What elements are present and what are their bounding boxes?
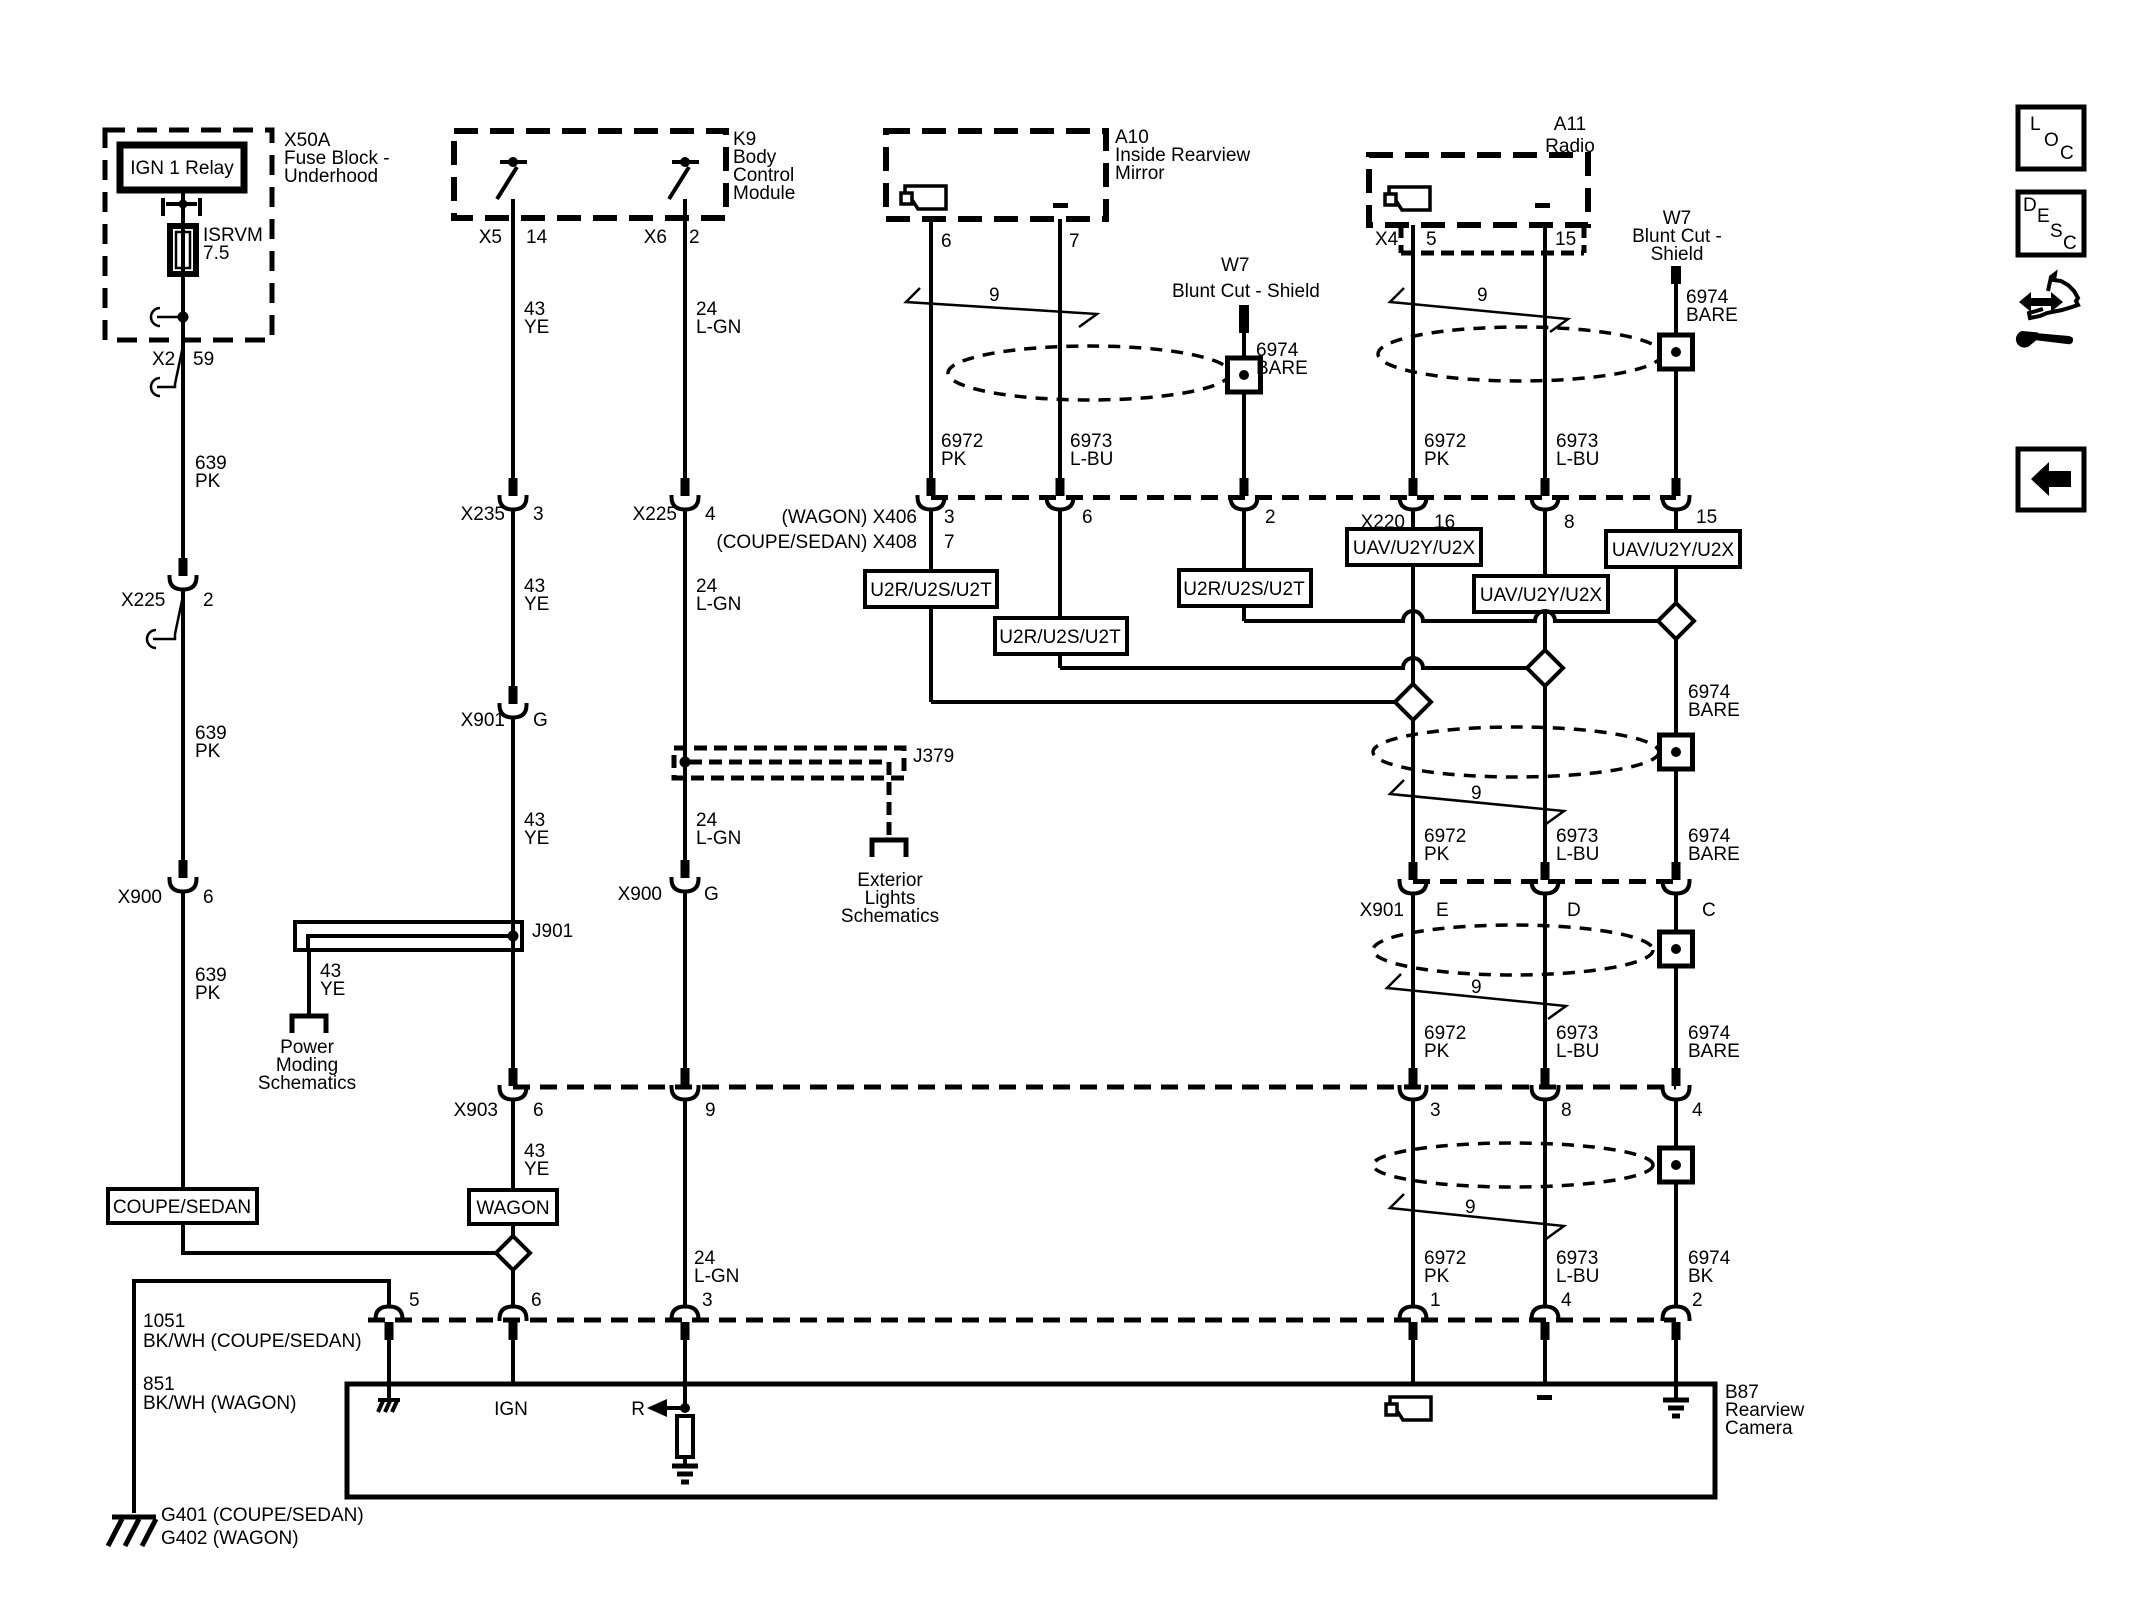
splice pack J901 — [295, 922, 522, 950]
wire label 6974 BARE (W7 right) — [1686, 287, 1738, 326]
svg-text:8: 8 — [1564, 512, 1575, 533]
wire label 43 YE (segment 2) — [524, 576, 549, 615]
svg-text:WAGON: WAGON — [476, 1198, 549, 1219]
wire label 43 YE (segment 1) — [524, 299, 549, 338]
svg-text:A11: A11 — [1554, 114, 1586, 135]
camera icon inside A11 — [1385, 187, 1430, 210]
wire: x=513 to splice J901 — [511, 716, 515, 1068]
svg-text:BARE: BARE — [1688, 1041, 1740, 1062]
WAGON option box — [469, 1190, 557, 1224]
svg-text:L: L — [2030, 114, 2041, 135]
wire label 6974 BARE (below diamond) — [1688, 682, 1740, 721]
chassis ground inside camera box (pin 5) — [378, 1400, 400, 1412]
svg-text:Module: Module — [733, 183, 795, 204]
svg-text:L-BU: L-BU — [1070, 449, 1113, 470]
svg-text:C: C — [2063, 233, 2077, 254]
wire: x=1060 to U2R box lower — [1058, 508, 1062, 618]
svg-text:YE: YE — [524, 594, 549, 615]
splice J379 dashed box — [674, 748, 904, 838]
svg-text:4: 4 — [705, 504, 716, 525]
svg-text:U2R/U2S/U2T: U2R/U2S/U2T — [1183, 579, 1305, 600]
svg-text:Mirror: Mirror — [1115, 163, 1165, 184]
svg-text:D: D — [2023, 195, 2037, 216]
wire label 43 YE (segment 3) — [524, 810, 549, 849]
svg-text:2: 2 — [203, 590, 214, 611]
wire label 24 L-GN (segment 2) — [696, 576, 741, 615]
wire: UAV right box down to diamond — [1674, 567, 1678, 603]
label X4 5 (radio) — [1375, 229, 1437, 250]
label 851 BK/WH (WAGON) — [143, 1374, 296, 1414]
svg-text:14: 14 — [526, 227, 548, 248]
junction diamond (x=1676 bus1) — [1658, 603, 1694, 639]
connector X901 pin G — [500, 686, 527, 718]
wire: mirror pin 7 down (6973 L-BU), x=1060 — [1058, 219, 1062, 478]
minus terminal inside B87 — [1537, 1395, 1552, 1400]
svg-text:YE: YE — [524, 317, 549, 338]
svg-text:X903: X903 — [454, 1100, 498, 1121]
option box UAV/U2Y/U2X (top) — [1347, 529, 1481, 565]
svg-text:X6: X6 — [644, 227, 667, 248]
svg-text:PK: PK — [195, 471, 221, 492]
label K9 Body Control Module — [733, 129, 795, 204]
svg-text:X235: X235 — [461, 504, 505, 525]
bus wire 1 with hops to diamond on x=1676 — [1244, 611, 1659, 621]
svg-text:G401 (COUPE/SEDAN): G401 (COUPE/SEDAN) — [161, 1505, 364, 1526]
wire: BCM X6-2 down (24 L-GN), x=685 — [683, 199, 687, 478]
svg-text:4: 4 — [1561, 1290, 1572, 1311]
svg-text:UAV/U2Y/U2X: UAV/U2Y/U2X — [1353, 538, 1475, 559]
wire: W7 shield drain (6974 BARE), x=1244 — [1242, 333, 1246, 478]
wire: x=1413 X901 to X903 — [1411, 892, 1415, 1068]
wire: x=1545 X901 to X903 — [1543, 892, 1547, 1068]
wire: radio X4-5 down (6972 PK), x=1413 — [1411, 225, 1415, 478]
svg-text:PK: PK — [941, 449, 967, 470]
svg-text:6: 6 — [203, 887, 214, 908]
junction diamond (x=1413 bus3) — [1395, 684, 1431, 720]
wire label 6972 PK (radio) — [1424, 431, 1466, 470]
connector X220 pin 16 — [1400, 478, 1427, 510]
connector pin 15 (wire 6974 right) — [1663, 478, 1690, 510]
wire: COUPE/SEDAN box to merge diamond — [183, 1223, 495, 1253]
svg-text:5: 5 — [1426, 229, 1437, 250]
off-page pointer to Exterior Lights Schematics — [872, 840, 906, 857]
label X901 E — [1360, 900, 1449, 921]
svg-text:W7: W7 — [1221, 255, 1250, 276]
wire: J901 branch down to off-page — [307, 950, 311, 1016]
shield ellipse (row 4) — [1373, 1143, 1653, 1187]
twisted pair marker 9 (row 3) — [1387, 974, 1566, 1019]
svg-text:U2R/U2S/U2T: U2R/U2S/U2T — [999, 627, 1121, 648]
wire: x=513 to WAGON box — [511, 1098, 515, 1190]
wire: relay output to fuse, left column x=183 — [181, 190, 185, 560]
merge diamond at x=513 — [496, 1236, 530, 1270]
svg-text:Shield: Shield — [1651, 244, 1704, 265]
label X235 3 — [461, 504, 544, 525]
wire: W7 right shield drain (6974 BARE), x=1676 — [1674, 284, 1678, 478]
svg-text:851: 851 — [143, 1374, 175, 1395]
connector X903 pin 6 — [500, 1068, 527, 1100]
wire label 6973 L-BU (mirror) — [1070, 431, 1113, 470]
label X225 2 — [121, 590, 214, 611]
svg-text:6: 6 — [1082, 507, 1093, 528]
svg-text:3: 3 — [702, 1290, 713, 1311]
body control module K9 dashed box — [454, 131, 726, 218]
label G401 (COUPE/SEDAN) G402 (WAGON) — [161, 1505, 364, 1549]
bottom connector pin 6 — [500, 1307, 527, 1341]
camera icon inside B87 — [1386, 1397, 1431, 1420]
svg-text:9: 9 — [1477, 285, 1488, 306]
radio A11 connector notch dashed — [1401, 225, 1584, 253]
wire: x=513 continues — [511, 508, 515, 687]
wire: pin 2 into camera box — [1674, 1340, 1678, 1400]
svg-text:3: 3 — [533, 504, 544, 525]
svg-text:8: 8 — [1561, 1100, 1572, 1121]
svg-text:G402 (WAGON): G402 (WAGON) — [161, 1528, 299, 1549]
connector X225-2 clip (diagonal with hook) — [147, 591, 184, 648]
connector X901 pin E — [1400, 862, 1427, 894]
wire: x=1413 X903 to bottom row — [1411, 1098, 1415, 1308]
svg-text:9: 9 — [989, 285, 1000, 306]
wire: x=1676 X903 to bottom row through shield — [1674, 1098, 1678, 1308]
connector X2 pin 59 (diagonal with hook) — [151, 341, 184, 396]
blunt cut stub W7 right — [1671, 266, 1681, 284]
svg-text:J379: J379 — [913, 746, 954, 767]
junction dot with clip hook inside fuse block — [151, 308, 189, 326]
wire label 6972 PK (bottom) — [1424, 1248, 1466, 1287]
shield connector box (row 3) — [1660, 932, 1693, 966]
label A11 Radio — [1545, 114, 1595, 157]
wire: x=1676 diamond through shield box to X901 row — [1674, 639, 1678, 863]
svg-text:9: 9 — [1471, 783, 1482, 804]
wire: x=1545 diamond to X901 row — [1543, 686, 1547, 863]
label X903 6 — [454, 1100, 544, 1121]
connector X903 pin 3 — [1400, 1068, 1427, 1100]
svg-text:2: 2 — [689, 227, 700, 248]
dashed bottom connector bus row — [368, 1318, 1676, 1323]
svg-text:1: 1 — [1430, 1290, 1441, 1311]
wire label 6974 BARE (above X901) — [1688, 826, 1740, 865]
svg-text:IGN 1 Relay: IGN 1 Relay — [130, 158, 234, 179]
svg-text:9: 9 — [705, 1100, 716, 1121]
svg-text:6: 6 — [533, 1100, 544, 1121]
svg-text:YE: YE — [524, 828, 549, 849]
wire label 6972 PK (mirror) — [941, 431, 983, 470]
wire label 6973 L-BU (above X903) — [1556, 1023, 1599, 1062]
svg-text:15: 15 — [1696, 507, 1717, 528]
wire: x=685 to bottom connector — [683, 1098, 687, 1308]
svg-text:2: 2 — [1265, 507, 1276, 528]
chassis ground G401/G402 — [108, 1517, 156, 1546]
connector X225 pin 2 on left wire — [170, 558, 197, 590]
label X900 6 — [118, 887, 214, 908]
option box UAV/U2Y/U2X (right) — [1606, 531, 1740, 567]
wire: UAV middle box down to diamond — [1543, 612, 1547, 650]
label (WAGON) X406 3 / (COUPE/SEDAN) X408 7 — [716, 507, 954, 553]
svg-text:X5: X5 — [479, 227, 502, 248]
wire label 6973 L-BU (above X901) — [1556, 826, 1599, 865]
wire label 6974 BARE (W7 left) — [1256, 340, 1308, 379]
svg-text:(WAGON) X406: (WAGON) X406 — [782, 507, 918, 528]
minus terminal inside A10 — [1053, 203, 1068, 208]
svg-text:X225: X225 — [633, 504, 677, 525]
switch contact X5 inside K9 — [497, 157, 527, 199]
svg-text:X900: X900 — [118, 887, 162, 908]
wire: x=1413 to UAV box — [1411, 508, 1415, 529]
svg-text:2: 2 — [1692, 1290, 1703, 1311]
wire label 24 L-GN (segment 3) — [696, 810, 741, 849]
svg-text:1051: 1051 — [143, 1311, 185, 1332]
svg-text:X225: X225 — [121, 590, 165, 611]
svg-text:Schematics: Schematics — [841, 906, 939, 927]
LOC legend box — [2018, 107, 2084, 169]
wire: ground feed 1051/851 to camera pin 5 — [134, 1281, 389, 1513]
junction diamond (x=1545 bus2) — [1527, 650, 1563, 686]
wire: pin 3 into camera box — [683, 1340, 687, 1408]
label X6 2 — [644, 227, 700, 248]
wire label 639 PK (segment 3) — [195, 965, 227, 1004]
COUPE/SEDAN option box — [108, 1189, 257, 1223]
bottom connector pin 3 — [672, 1307, 699, 1341]
twisted pair marker 9 (row 2) — [1390, 780, 1564, 824]
svg-text:7.5: 7.5 — [203, 243, 229, 264]
svg-text:L-GN: L-GN — [696, 828, 741, 849]
svg-text:YE: YE — [320, 979, 345, 1000]
svg-text:BK/WH (COUPE/SEDAN): BK/WH (COUPE/SEDAN) — [143, 1331, 362, 1352]
svg-text:L-BU: L-BU — [1556, 1041, 1599, 1062]
svg-text:6: 6 — [531, 1290, 542, 1311]
svg-text:6: 6 — [941, 231, 952, 252]
svg-text:G: G — [704, 884, 719, 905]
svg-text:G: G — [533, 710, 548, 731]
svg-text:BARE: BARE — [1688, 844, 1740, 865]
svg-text:3: 3 — [944, 507, 955, 528]
wire label 639 PK (segment 1) — [195, 453, 227, 492]
svg-text:E: E — [1436, 900, 1449, 921]
bottom connector pin 4 — [1532, 1307, 1559, 1341]
relay K: IGN 1 Relay box — [120, 145, 244, 190]
svg-text:59: 59 — [193, 349, 214, 370]
wire label 6973 L-BU (radio) — [1556, 431, 1599, 470]
wire label 6972 PK (above X901) — [1424, 826, 1466, 865]
label W7 Blunt Cut - Shield (left) — [1172, 255, 1320, 302]
connector X901 pin C — [1663, 862, 1690, 894]
svg-text:COUPE/SEDAN: COUPE/SEDAN — [113, 1197, 251, 1218]
label X5 14 — [479, 227, 548, 248]
shield connector box (mirror pair) — [1228, 358, 1261, 392]
inside rearview mirror A10 dashed box — [886, 131, 1106, 219]
connector X225 pin 4 — [672, 478, 699, 510]
svg-text:Radio: Radio — [1545, 136, 1595, 157]
bottom connector pin 5 — [376, 1307, 403, 1341]
wire: U2R middle down to bus 1 — [1242, 606, 1246, 621]
wire: diamond to bottom connector — [511, 1270, 515, 1308]
rearview camera B87 box — [347, 1384, 1715, 1497]
wire: x=931 to U2R box — [929, 508, 933, 571]
option box U2R/U2S/U2T (middle) — [1179, 570, 1311, 606]
shield connector box (row 2) — [1660, 735, 1693, 769]
radio A11 dashed box — [1369, 155, 1588, 225]
svg-text:BARE: BARE — [1686, 305, 1738, 326]
wire: x=685 continues through J379 — [683, 508, 687, 861]
wire: mirror pin 6 down (6972 PK), x=931 — [929, 219, 933, 478]
svg-text:7: 7 — [944, 532, 955, 553]
dashed inline connector bus X903 row — [513, 1085, 1676, 1090]
wire: x=1676 X901 to X903 through shield — [1674, 892, 1678, 1068]
label 1051 BK/WH (COUPE/SEDAN) — [143, 1311, 362, 1352]
twisted pair marker 9 (row 4) — [1390, 1194, 1564, 1239]
dashed inline connector bus row 1 — [931, 495, 1676, 500]
wire: pin 5 into camera box — [387, 1340, 391, 1400]
wire: x=1545 X903 to bottom row — [1543, 1098, 1547, 1308]
earth ground (resistor) — [672, 1466, 698, 1482]
blunt cut stub W7 left — [1239, 305, 1249, 333]
label Power Moding Schematics — [258, 1037, 356, 1094]
label X2 59 — [152, 349, 214, 370]
twisted pair marker 9 (radio pair top) — [1390, 285, 1568, 332]
connector X903 pin 8 — [1532, 1068, 1559, 1100]
svg-text:UAV/U2Y/U2X: UAV/U2Y/U2X — [1612, 540, 1734, 561]
svg-text:L-BU: L-BU — [1556, 449, 1599, 470]
wire: x=1676 to UAV box right — [1674, 508, 1678, 531]
label Exterior Lights Schematics — [841, 870, 939, 927]
wire: UAV top box down through bus rows — [1411, 565, 1415, 684]
label X225 4 — [633, 504, 716, 525]
shield ellipse (mirror pair) — [948, 346, 1230, 400]
svg-text:YE: YE — [524, 1159, 549, 1180]
connector X900 pin G — [672, 860, 699, 892]
svg-text:X901: X901 — [461, 710, 505, 731]
wire: x=1545 to UAV box middle — [1543, 508, 1547, 576]
wire label 24 L-GN (segment 1) — [696, 299, 741, 338]
connector X235 pin 3 — [500, 478, 527, 510]
wire label 6974 BK (bottom) — [1688, 1248, 1731, 1287]
svg-text:4: 4 — [1692, 1100, 1703, 1121]
shield connector box (row 4) — [1660, 1148, 1693, 1182]
wire label 43 YE (J901 branch) — [320, 961, 345, 1000]
svg-text:UAV/U2Y/U2X: UAV/U2Y/U2X — [1480, 585, 1602, 606]
svg-text:9: 9 — [1471, 977, 1482, 998]
wire label 43 YE (segment 4) — [524, 1141, 549, 1180]
reverse signal R with arrow — [631, 1399, 690, 1420]
wire: U2R left down to bus 3 — [929, 607, 933, 702]
bus wire 3 to diamond on x=1413 — [931, 700, 1395, 704]
svg-text:C: C — [2060, 143, 2074, 164]
wire: left column to COUPE/SEDAN box — [181, 890, 185, 1189]
fuse block X50A dashed box — [105, 130, 272, 340]
svg-text:D: D — [1567, 900, 1581, 921]
svg-text:J901: J901 — [532, 921, 573, 942]
wire label 6974 BARE (above X903) — [1688, 1023, 1740, 1062]
svg-text:E: E — [2037, 206, 2050, 227]
connector X903 pin 9 — [672, 1068, 699, 1100]
svg-text:PK: PK — [1424, 449, 1450, 470]
svg-text:C: C — [1702, 900, 1716, 921]
wire: pin 1 into camera box — [1411, 1340, 1415, 1384]
bus wire 2 with hop to diamond on x=1545 — [1060, 658, 1528, 668]
switch contact X6 inside K9 — [669, 157, 699, 199]
svg-text:IGN: IGN — [494, 1399, 528, 1420]
twisted pair marker 9 (mirror pair) — [906, 285, 1097, 327]
svg-text:(COUPE/SEDAN) X408: (COUPE/SEDAN) X408 — [716, 532, 917, 553]
relay terminal bracket — [163, 198, 200, 216]
svg-text:3: 3 — [1430, 1100, 1441, 1121]
svg-text:X901: X901 — [1360, 900, 1404, 921]
svg-text:BK: BK — [1688, 1266, 1714, 1287]
svg-text:L-BU: L-BU — [1556, 1266, 1599, 1287]
svg-text:R: R — [631, 1399, 645, 1420]
svg-text:15: 15 — [1555, 229, 1576, 250]
svg-text:X4: X4 — [1375, 229, 1399, 250]
svg-text:L-BU: L-BU — [1556, 844, 1599, 865]
wire: BCM X5-14 down (43 YE), x=513 — [511, 199, 515, 478]
svg-text:Camera: Camera — [1725, 1418, 1793, 1439]
wire: x=1244 to U2R box middle — [1242, 508, 1246, 570]
label A10 Inside Rearview Mirror — [1115, 127, 1250, 184]
svg-text:L-GN: L-GN — [696, 594, 741, 615]
svg-text:BARE: BARE — [1688, 700, 1740, 721]
wire: WAGON box to diamond — [511, 1224, 515, 1236]
option box U2R/U2S/U2T (left) — [865, 571, 997, 607]
connector X900 pin 6 on left wire — [170, 860, 197, 892]
wire: x=685 down to X903 row — [683, 890, 687, 1068]
svg-text:Underhood: Underhood — [284, 166, 378, 187]
shield connector box (radio pair top) — [1660, 335, 1693, 369]
off-page pointer to Power Moding Schematics — [292, 1016, 326, 1033]
svg-text:PK: PK — [195, 741, 221, 762]
option box UAV/U2Y/U2X (middle) — [1474, 576, 1608, 612]
camera icon inside A10 — [901, 186, 946, 209]
svg-text:BK/WH (WAGON): BK/WH (WAGON) — [143, 1393, 296, 1414]
svg-text:PK: PK — [1424, 1041, 1450, 1062]
dashed inline connector bus X901 row — [1413, 879, 1676, 884]
svg-text:BARE: BARE — [1256, 358, 1308, 379]
wire label 6972 PK (above X903) — [1424, 1023, 1466, 1062]
svg-text:O: O — [2044, 130, 2059, 151]
connector pin 8 (wire 6973 radio) — [1532, 478, 1559, 510]
svg-text:X2: X2 — [152, 349, 175, 370]
svg-text:PK: PK — [1424, 844, 1450, 865]
svg-text:Blunt Cut - Shield: Blunt Cut - Shield — [1172, 281, 1320, 302]
connector pin 2 (wire 6974 left) — [1231, 478, 1258, 510]
svg-text:L-GN: L-GN — [694, 1266, 739, 1287]
label W7 Blunt Cut - Shield (right) — [1632, 208, 1722, 265]
svg-text:S: S — [2050, 221, 2063, 242]
shield ellipse (row 3) — [1373, 925, 1653, 975]
bottom connector pin 1 — [1400, 1307, 1427, 1341]
DESC legend box — [2018, 192, 2084, 255]
wire label 24 L-GN (segment 4) — [694, 1248, 739, 1287]
option box U2R/U2S/U2T (lower) — [995, 618, 1127, 654]
shield ellipse (radio pair top) — [1378, 327, 1662, 381]
wire: U2R lower down to bus 2 — [1058, 654, 1062, 668]
wire: left column continues — [181, 588, 185, 861]
earth ground (pin 2) — [1663, 1400, 1689, 1416]
label X220 16 — [1361, 512, 1456, 533]
bottom connector pin 2 — [1663, 1307, 1690, 1341]
connector X903 pin 4 — [1663, 1068, 1690, 1100]
wire: resistor to internal ground — [683, 1457, 687, 1466]
connector X406/X408 pin (wire 6972 mirror) — [918, 478, 945, 510]
label X900 G — [618, 884, 719, 905]
back arrow legend box — [2018, 449, 2084, 510]
label X901 G — [461, 710, 548, 731]
wire: radio 15 down (6973 L-BU), x=1545 — [1543, 225, 1547, 478]
label B87 Rearview Camera — [1725, 1382, 1804, 1439]
shield ellipse (radio pair row 2) — [1373, 727, 1659, 777]
wire: pin 4 into camera box — [1543, 1340, 1547, 1384]
svg-text:9: 9 — [1465, 1197, 1476, 1218]
wire label 6973 L-BU (bottom) — [1556, 1248, 1599, 1287]
